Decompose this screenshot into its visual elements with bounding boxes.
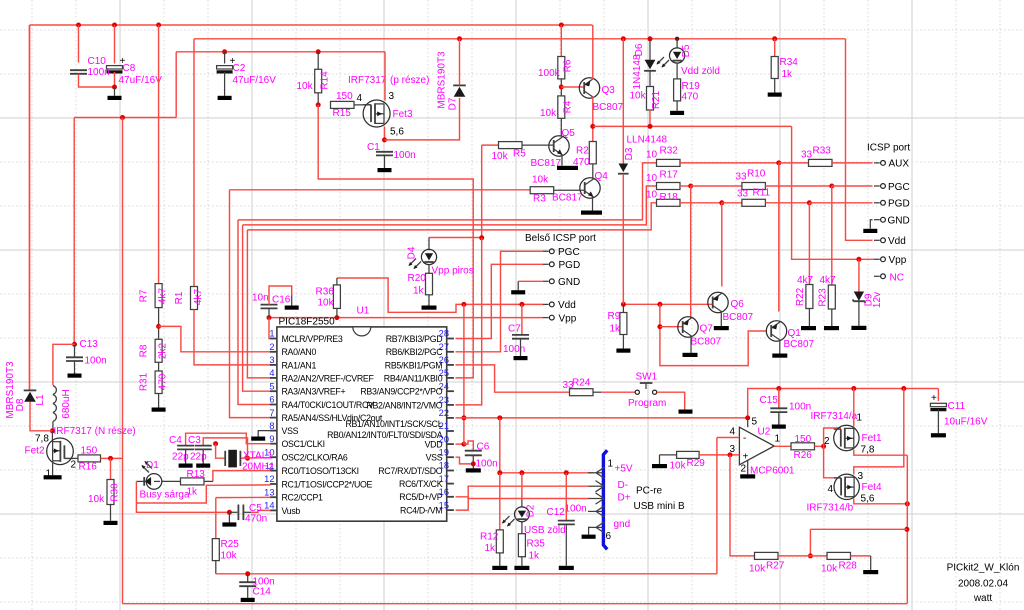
wire PGC to R10 <box>691 185 742 187</box>
wire +5V drop x=499.8 <box>499 418 501 473</box>
wire output rail y=603.7 <box>123 603 907 605</box>
IC U1 PIC18F2550 body <box>277 327 447 521</box>
svg-text:R29: R29 <box>687 458 706 469</box>
svg-text:100n: 100n <box>503 344 525 355</box>
ground under C13 <box>68 374 82 378</box>
svg-text:VDD: VDD <box>425 440 443 450</box>
resistor R13 <box>181 478 205 485</box>
svg-text:R34: R34 <box>780 57 799 68</box>
ground under R19 <box>670 111 684 115</box>
resistor R6 <box>558 57 565 79</box>
svg-text:47uF/16V: 47uF/16V <box>119 75 163 86</box>
node divider tap <box>904 527 909 532</box>
wire R36 top lead <box>336 278 338 285</box>
wire gate to Fet1 <box>824 428 841 446</box>
resistor R8 <box>155 339 162 362</box>
port pin PGC <box>874 184 885 189</box>
svg-text:7,8: 7,8 <box>35 434 49 445</box>
svg-text:10k: 10k <box>630 91 647 102</box>
wire D8 anode lead <box>30 402 52 431</box>
svg-text:RA1/AN1: RA1/AN1 <box>282 360 317 370</box>
wire R11 right lead <box>765 202 809 204</box>
svg-text:XTAL1: XTAL1 <box>243 451 273 462</box>
wire Vdd rail y=417.9 <box>456 417 748 419</box>
svg-text:D-: D- <box>618 480 629 491</box>
ground under R20 <box>422 306 437 310</box>
ground under Fet2 <box>44 475 62 479</box>
svg-text:3: 3 <box>269 355 274 365</box>
resistor R23 <box>828 285 835 309</box>
capacitor C6 <box>465 451 482 456</box>
node x=122 on y=117.5 <box>120 115 125 120</box>
resistor R22 <box>806 285 813 309</box>
wire D9 ground lead <box>858 301 860 325</box>
node rail to +5V line <box>497 415 502 420</box>
wire C12 ground lead <box>565 524 567 565</box>
port pin AUX <box>874 161 885 166</box>
wire R28 right lead <box>851 555 871 557</box>
resistor R5 <box>499 142 523 149</box>
IC U1 pin names <box>282 334 444 516</box>
svg-text:R36: R36 <box>316 287 335 298</box>
node C12 tap <box>564 470 569 475</box>
svg-text:Fet2: Fet2 <box>25 446 45 457</box>
resistor R16 <box>78 455 101 462</box>
wire PGC to port <box>832 185 873 187</box>
node XTAL right on OSC2 <box>245 456 250 461</box>
port pin Vdd <box>874 238 885 243</box>
svg-text:Q6: Q6 <box>731 299 745 310</box>
svg-text:R27: R27 <box>766 561 785 572</box>
wire R6 bottom lead <box>560 79 562 96</box>
ground at R28 <box>863 570 878 574</box>
ground under R23 <box>824 326 839 330</box>
resistor R20 <box>426 273 433 295</box>
svg-text:OSC1/CLKI: OSC1/CLKI <box>282 439 325 449</box>
ground under C7 <box>514 356 528 360</box>
wire R7 bottom lead <box>158 308 160 340</box>
svg-text:100n: 100n <box>476 459 498 470</box>
wire R12 drop <box>499 473 501 530</box>
wire D8 cathode lead <box>29 25 31 391</box>
switch SW1 <box>635 383 657 394</box>
svg-text:Busy sárga: Busy sárga <box>140 490 190 501</box>
svg-text:47uF/16V: 47uF/16V <box>233 75 277 86</box>
resistor R36 <box>333 285 340 309</box>
svg-text:14: 14 <box>264 501 274 511</box>
wire x=122 long vertical <box>122 118 124 604</box>
svg-text:ICSP port: ICSP port <box>867 143 910 154</box>
svg-text:12v: 12v <box>872 292 883 308</box>
wire C16 loop ground stem <box>291 296 293 306</box>
wire R16 right lead <box>101 457 123 459</box>
svg-text:Fet3: Fet3 <box>393 109 413 120</box>
svg-text:R22: R22 <box>795 287 806 306</box>
wire D1 left lead <box>136 480 146 482</box>
wire RA4 bundle to R32 <box>238 163 657 220</box>
wire R31 ground lead <box>158 394 160 408</box>
wire C2 top lead <box>224 52 226 64</box>
wire C5 gnd stem <box>228 512 230 522</box>
svg-text:10k: 10k <box>318 298 335 309</box>
wire Belso Vdd line <box>337 278 543 312</box>
crystal XTAL1 <box>225 450 240 468</box>
svg-text:R12: R12 <box>480 532 499 543</box>
svg-text:RB1/AN10/INT1/SCK/SCL: RB1/AN10/INT1/SCK/SCL <box>345 419 442 429</box>
transistor Fet1 IRF7314/a <box>834 425 859 450</box>
svg-text:RB6/KBI2/PGC: RB6/KBI2/PGC <box>386 347 443 357</box>
diode D7 MBRS190T3 <box>453 85 466 96</box>
transistor Q6 BC807 <box>708 292 728 312</box>
transistor Q3 BC807 <box>579 78 599 98</box>
wire pin13 RC2 line <box>216 496 271 498</box>
wire SW1 to ground <box>657 392 685 409</box>
wire divider to pin3 <box>730 455 755 556</box>
svg-text:D7: D7 <box>448 97 459 110</box>
ground at USB <box>582 535 596 539</box>
svg-text:C3: C3 <box>188 435 201 446</box>
wire Belso GND hook <box>518 280 543 282</box>
svg-text:U1: U1 <box>357 306 370 317</box>
svg-text:2008.02.04: 2008.02.04 <box>958 579 1008 590</box>
svg-text:1: 1 <box>775 434 781 445</box>
wire Q6 collector vertical <box>721 203 723 287</box>
svg-text:RB3/AN9/CCP2*/VPO: RB3/AN9/CCP2*/VPO <box>360 387 442 397</box>
svg-text:MCP6001: MCP6001 <box>750 466 795 477</box>
svg-text:9: 9 <box>269 434 274 444</box>
wire RA3 bundle to R17 <box>243 186 657 225</box>
svg-text:+5V: +5V <box>615 464 633 475</box>
LED D4 Vpp piros circle <box>421 249 436 264</box>
svg-text:22p: 22p <box>190 452 207 463</box>
ground under Q1 <box>772 354 787 358</box>
wire R35 ground lead <box>521 557 523 566</box>
svg-text:IRF7314/b: IRF7314/b <box>807 503 854 514</box>
wire R29 to U2 pin3 <box>699 454 739 456</box>
node C13/L1 <box>72 342 77 347</box>
ground under C6 <box>466 468 481 472</box>
resistor R34 <box>771 57 778 79</box>
svg-text:C4: C4 <box>169 435 182 446</box>
ground under Q4 <box>581 211 602 215</box>
wire pin12 staircase <box>136 481 270 503</box>
svg-text:IRF7317 (N része): IRF7317 (N része) <box>54 426 136 437</box>
resistor R35 <box>518 534 525 557</box>
svg-text:C6: C6 <box>477 442 490 453</box>
resistor R26 <box>791 443 815 450</box>
node PGC after R17 <box>688 184 693 189</box>
svg-text:R18: R18 <box>660 192 679 203</box>
svg-text:1: 1 <box>608 459 614 470</box>
wire PGD to port <box>809 202 872 204</box>
node D2 tap <box>519 470 524 475</box>
svg-text:2: 2 <box>824 436 830 447</box>
svg-text:IRF7317: IRF7317 <box>348 75 387 86</box>
wire pin8 VSS hook <box>258 431 270 437</box>
svg-text:R3: R3 <box>533 194 546 205</box>
svg-text:10k: 10k <box>749 564 766 575</box>
node U2 pin3 / divider <box>728 452 733 457</box>
wire C13 ground lead <box>74 361 76 374</box>
wire C5 left lead <box>229 511 237 513</box>
wire Q3 collector bottom <box>592 97 594 142</box>
svg-text:RC5/D+/VP: RC5/D+/VP <box>399 492 442 502</box>
wire R14 top lead <box>317 52 319 70</box>
svg-text:R13: R13 <box>187 469 206 480</box>
svg-text:33: 33 <box>737 189 749 200</box>
resistor R28 <box>827 552 851 559</box>
wire C8 ground lead <box>114 87 116 96</box>
ground under C4 <box>179 464 193 468</box>
wire Fet2 source to R16 <box>65 457 78 459</box>
node D3/R9 on base rail <box>621 302 626 307</box>
svg-text:RB7/KBI3/PGD: RB7/KBI3/PGD <box>386 334 443 344</box>
svg-text:+: + <box>931 393 937 404</box>
ground at R29 <box>652 464 667 468</box>
svg-text:4: 4 <box>357 93 363 104</box>
wire R34 top lead <box>774 39 776 57</box>
wire pin20 VDD link <box>456 443 464 445</box>
svg-text:PGD: PGD <box>888 199 910 210</box>
svg-text:100n: 100n <box>789 402 811 413</box>
svg-text:4: 4 <box>828 484 834 495</box>
svg-text:1k: 1k <box>485 543 497 554</box>
node R27/R28 <box>808 553 813 558</box>
node AUX / Q1 collector <box>776 160 781 165</box>
wire Vpp feed x=791.6 <box>792 126 874 259</box>
wire C6 bottom lead <box>472 455 474 468</box>
ground under C15 <box>772 425 786 429</box>
ground under Q5 <box>557 166 578 170</box>
wire R12 ground lead <box>499 553 501 566</box>
wire x=74 vertical to C13 <box>73 118 75 345</box>
resistor R17 <box>657 183 681 190</box>
resistor R21 <box>647 87 654 111</box>
svg-text:10k: 10k <box>492 151 509 162</box>
svg-text:470n: 470n <box>245 514 267 525</box>
wire R21 bottom lead <box>649 110 651 126</box>
svg-text:R7: R7 <box>139 289 150 302</box>
wire R9 ground lead <box>622 335 624 349</box>
ground at Belso GND <box>511 290 525 294</box>
svg-text:150: 150 <box>336 91 353 102</box>
resistor R30 <box>107 480 114 505</box>
svg-text:100n: 100n <box>85 356 107 367</box>
port pin Belso Vdd <box>543 302 554 307</box>
svg-text:4: 4 <box>269 368 274 378</box>
zener D9 bar <box>853 300 866 303</box>
wire R19 ground lead <box>676 101 678 111</box>
wire PWM filter rail y=573.8 <box>216 573 717 575</box>
svg-text:USB mini B: USB mini B <box>634 501 685 512</box>
svg-text:R30: R30 <box>110 483 121 502</box>
wire pin19 VSS jog <box>456 457 474 464</box>
port pin Vpp <box>874 257 885 262</box>
svg-text:R16: R16 <box>79 462 98 473</box>
USB pin 1 +5V arrow <box>588 467 605 478</box>
ground under C1 <box>378 168 392 172</box>
svg-text:C5: C5 <box>249 503 262 514</box>
svg-text:VSS: VSS <box>426 453 443 463</box>
wire pin15 D- staircase <box>456 486 589 510</box>
svg-text:R25: R25 <box>221 539 240 550</box>
wire RA5 vertical x=229.5 <box>230 190 271 418</box>
wire D3 to base rail <box>622 174 624 304</box>
wire R22 ground lead <box>808 309 810 327</box>
svg-text:10: 10 <box>646 190 658 201</box>
wire RA5 line y=189.8 to R3 <box>230 189 531 191</box>
node Q3 base <box>559 85 564 90</box>
wire Q7 base link <box>660 326 682 328</box>
capacitor C1 <box>376 152 393 156</box>
svg-text:R1: R1 <box>174 291 185 304</box>
wire R22 top vertical <box>808 203 810 285</box>
wire x=176 link <box>175 52 177 118</box>
node C6 bottom <box>471 461 476 466</box>
node FET gate split <box>821 444 826 449</box>
wire D3 vertical <box>622 39 624 164</box>
svg-text:BC807: BC807 <box>593 102 624 113</box>
svg-text:D4: D4 <box>407 246 418 259</box>
wire OSC1 loop <box>186 433 271 445</box>
svg-text:Vdd zöld: Vdd zöld <box>681 66 720 77</box>
resistor R32 <box>657 159 681 166</box>
svg-text:Q5: Q5 <box>562 128 576 139</box>
svg-text:USB zöld: USB zöld <box>524 525 566 536</box>
wire Fet4 source riser <box>854 389 904 475</box>
svg-text:R21: R21 <box>651 90 662 109</box>
svg-text:VSS: VSS <box>282 426 299 436</box>
port pin Belso GND <box>543 279 554 284</box>
ground under C11 <box>931 433 946 437</box>
svg-text:5,6: 5,6 <box>861 494 875 505</box>
svg-text:gnd: gnd <box>614 519 631 530</box>
wire C4 ground lead <box>185 449 187 463</box>
node U2 pin5 tee <box>745 415 750 420</box>
svg-text:AUX: AUX <box>889 159 910 170</box>
wire C14 ground lead <box>247 586 249 598</box>
node C8 top <box>112 23 117 28</box>
wire Q1 emitter lead <box>779 340 781 354</box>
wire Fet1 source top <box>853 389 855 427</box>
LED D4 triangle <box>424 253 433 262</box>
wire C13 to L1 <box>53 344 75 385</box>
resistor R25 <box>212 539 219 561</box>
svg-text:L1: L1 <box>35 394 46 406</box>
wire D5 to R19 <box>676 63 678 79</box>
wire C11 ground lead <box>937 410 939 434</box>
ground under R12 <box>492 566 507 570</box>
svg-text:(p része): (p része) <box>390 75 429 86</box>
svg-text:PGC: PGC <box>558 247 580 258</box>
wire U2 pin5 stem <box>747 418 749 427</box>
node Fet1 S tap <box>851 386 856 391</box>
ground at pin8 <box>251 437 265 441</box>
svg-text:OSC2/CLKO/RA6: OSC2/CLKO/RA6 <box>282 453 348 463</box>
wire +5V line y=472.8 <box>500 472 594 474</box>
wire R28 left lead <box>810 555 827 557</box>
svg-text:10uF/16V: 10uF/16V <box>944 417 988 428</box>
wire Q7 base net <box>660 304 767 365</box>
svg-text:R6: R6 <box>563 59 574 72</box>
svg-text:1k: 1k <box>782 69 794 80</box>
svg-text:D8: D8 <box>15 398 26 411</box>
wire Q3 emitter top <box>592 25 594 80</box>
transistor Q5 BC817 <box>549 136 569 156</box>
svg-text:R35: R35 <box>527 539 546 550</box>
node pin20/Vdd rail <box>461 442 466 447</box>
svg-text:BC817: BC817 <box>531 158 562 169</box>
svg-text:C8: C8 <box>123 63 136 74</box>
wire MCLR to pin1 <box>269 318 277 339</box>
svg-text:1N4148: 1N4148 <box>632 54 643 89</box>
svg-text:R19: R19 <box>682 81 701 92</box>
wire R30 top lead <box>110 458 112 479</box>
svg-text:C12: C12 <box>547 507 566 518</box>
zener diode D9 <box>854 292 864 301</box>
resistor R4 <box>558 96 565 118</box>
svg-text:R28: R28 <box>839 561 858 572</box>
node C15 tap <box>776 386 781 391</box>
wire R2 bottom to Q4 <box>592 164 594 179</box>
svg-text:PICkit2_W_Klón: PICkit2_W_Klón <box>947 563 1020 574</box>
wire D7 cathode lead <box>459 39 461 85</box>
wire R1 bottom to pin3 <box>194 310 271 365</box>
wire Fet3 drain top <box>384 52 386 101</box>
IC U1 pin stubs and numbers <box>270 339 454 511</box>
wire R32 right lead <box>680 162 779 164</box>
capacitor C4 <box>177 446 194 450</box>
resistor R27 <box>755 552 779 559</box>
node Fet3 source / C1 <box>382 137 387 142</box>
svg-text:LLN4148: LLN4148 <box>627 135 668 146</box>
wire R7 top lead <box>158 25 160 284</box>
wire gate to Fet4 <box>824 446 841 478</box>
svg-text:10: 10 <box>646 150 658 161</box>
capacitor C16 <box>261 305 278 309</box>
svg-text:4k7: 4k7 <box>820 275 837 286</box>
wire AUX to R33 <box>779 162 809 164</box>
op-amp U2 MCP6001 <box>739 427 774 465</box>
svg-text:BC807: BC807 <box>784 339 815 350</box>
wire XTAL left lead <box>216 444 225 459</box>
wire C7 top lead <box>521 304 523 334</box>
wire C15 ground lead <box>778 412 780 424</box>
transistor Fet4 IRF7314/b <box>834 474 859 499</box>
node Fet2 drain / D8 / L1 <box>50 428 55 433</box>
wire L1 bottom lead <box>52 422 54 431</box>
wire Vdd vertical x=463.9 <box>463 304 465 444</box>
svg-text:BC807: BC807 <box>691 337 722 348</box>
svg-text:6: 6 <box>606 531 612 542</box>
svg-text:RA2/AN2/VREF-/CVREF: RA2/AN2/VREF-/CVREF <box>282 373 375 383</box>
svg-text:10k: 10k <box>540 108 557 119</box>
svg-text:C2: C2 <box>233 63 246 74</box>
svg-text:Vpp: Vpp <box>889 255 907 266</box>
node R14 top <box>316 49 321 54</box>
svg-text:R9: R9 <box>608 311 621 322</box>
ground at U2 pin2 <box>740 474 755 478</box>
svg-text:3: 3 <box>389 91 395 102</box>
ground under R22 <box>801 326 816 330</box>
svg-text:12: 12 <box>264 474 274 484</box>
wire R17 right lead <box>680 185 691 187</box>
wire R10 right lead <box>765 185 831 187</box>
svg-text:BC807: BC807 <box>723 312 754 323</box>
wire R1 top vertical <box>193 39 195 287</box>
wire C12 drop <box>565 473 567 521</box>
wire C11 top lead <box>937 389 939 402</box>
